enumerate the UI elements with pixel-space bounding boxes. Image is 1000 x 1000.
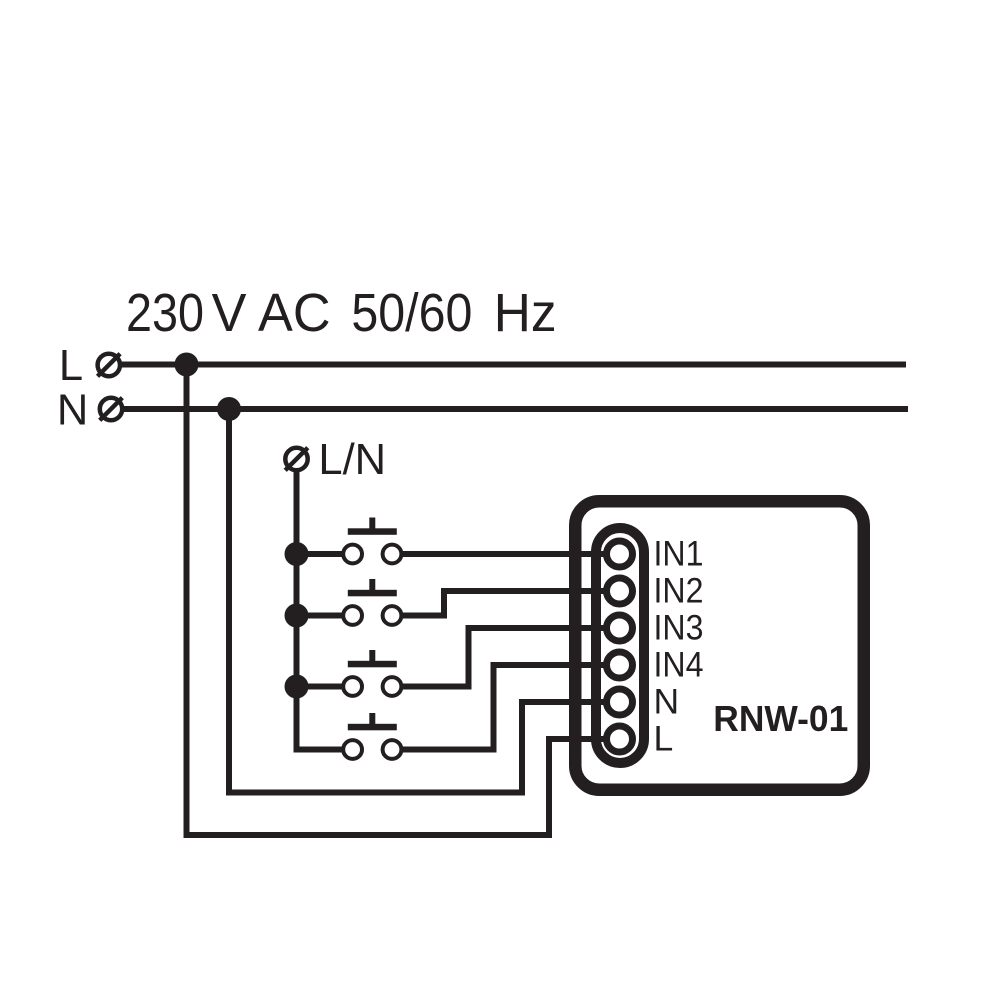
wire switch S3 to IN3: [297, 684, 353, 690]
terminal strip: [596, 528, 644, 763]
pushbutton S3: [343, 650, 401, 696]
svg-text:L: L: [59, 342, 83, 390]
terminal IN2: [607, 578, 633, 604]
junction dot bus S1: [285, 542, 309, 566]
wire N branch to module terminal N: [229, 409, 612, 793]
svg-text:IN3: IN3: [654, 608, 704, 648]
svg-text:50/60: 50/60: [351, 283, 472, 343]
svg-text:IN4: IN4: [654, 645, 704, 685]
pushbutton S1: [343, 518, 401, 564]
terminal L/N screw: [285, 448, 308, 471]
module RNW-01 box: [575, 501, 864, 790]
svg-text:N: N: [57, 387, 88, 435]
terminal N screw: [100, 398, 123, 421]
terminal IN1: [607, 541, 633, 567]
label 230 V AC 50/60 Hz: [126, 283, 557, 343]
svg-text:RNW-01: RNW-01: [713, 698, 848, 739]
wire switch bus from L/N terminal: [297, 459, 353, 750]
wire switch S4 to IN4: [392, 665, 612, 750]
svg-text:230: 230: [126, 283, 204, 343]
junction dot on L line: [175, 353, 199, 377]
svg-text:L/N: L/N: [318, 436, 386, 484]
terminal L screw: [98, 354, 121, 377]
wire L line: [120, 362, 906, 368]
svg-text:Hz: Hz: [494, 283, 557, 343]
svg-text:V AC: V AC: [212, 283, 331, 343]
terminal L: [607, 726, 633, 752]
terminal IN3: [607, 615, 633, 641]
svg-text:L: L: [654, 719, 674, 759]
junction dot on N line: [217, 397, 241, 421]
pushbutton S4: [343, 713, 401, 759]
pushbutton S2: [343, 579, 401, 625]
junction dot bus S2: [285, 604, 309, 628]
svg-text:IN1: IN1: [654, 534, 704, 574]
svg-text:N: N: [654, 682, 680, 722]
wire L branch to module terminal L: [187, 365, 613, 836]
wire switch S1 to IN1: [297, 551, 353, 557]
terminal N: [607, 689, 633, 715]
wire N line: [122, 406, 908, 412]
junction dot bus S3: [285, 675, 309, 699]
wire switch S2 to IN2: [297, 613, 353, 619]
terminal IN4: [607, 652, 633, 678]
svg-text:IN2: IN2: [654, 571, 704, 611]
